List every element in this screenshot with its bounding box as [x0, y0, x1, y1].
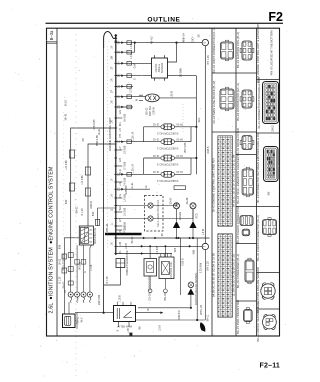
- ECU pin 2Q row: [116, 106, 133, 108]
- distributor box: [79, 226, 93, 245]
- main relay box: [114, 306, 136, 322]
- table row divider col1-2 y73: [212, 72, 257, 74]
- svg-text:2N: 2N: [111, 100, 114, 103]
- connector B6-11 round icon: [261, 284, 275, 298]
- svg-text:30–01 CONNECTOR BTWN ENG & ECU: 30–01 CONNECTOR BTWN ENG & ECU: [257, 77, 261, 129]
- svg-text:INJECTOR NO.3: INJECTOR NO.3: [157, 163, 179, 167]
- wire checker to lamp A: [153, 203, 176, 206]
- coil feed connector b: [62, 268, 67, 273]
- svg-text:L/W: L/W: [119, 241, 122, 246]
- svg-text:RED: RED: [196, 213, 199, 218]
- svg-text:0.85 B/R: 0.85 B/R: [178, 310, 181, 320]
- svg-text:1.0 G: 1.0 G: [130, 43, 133, 49]
- svg-text:B–3a: B–3a: [49, 30, 54, 40]
- checker lamp 1: [148, 203, 153, 208]
- connector B6-04 icon: [242, 169, 254, 195]
- injector left rail b: [143, 158, 145, 174]
- svg-text:1P 0.85: 1P 0.85: [123, 225, 126, 234]
- connector B6-05 icon bottom: [242, 229, 250, 236]
- sidebar divider line: [56, 28, 58, 336]
- connector B6-12 round icon: [263, 315, 277, 329]
- wire pin link vertical: [134, 43, 136, 53]
- svg-text:2Y: 2Y: [111, 45, 114, 48]
- wire oval stubs: [139, 95, 143, 100]
- wire main feed hook: [104, 32, 118, 48]
- pickup coil oval: [145, 94, 159, 102]
- spark plug 2: [75, 292, 80, 297]
- svg-text:2.0 B: 2.0 B: [130, 87, 133, 93]
- svg-text:2.6L ●IGNITION SYSTEM ●ENGIN: 2.6L ●IGNITION SYSTEM ●ENGINE CONTROL SY…: [49, 166, 55, 313]
- svg-text:OUTLINE: OUTLINE: [147, 17, 180, 24]
- crank angle sensor top pins: [155, 55, 165, 80]
- ECU pin 1H wire: [116, 205, 148, 207]
- lead inline connectors: [68, 253, 73, 258]
- svg-text:B/R: B/R: [119, 230, 122, 234]
- svg-text:W/G: W/G: [119, 205, 122, 210]
- svg-text:02–02 MAIN FUSE BLOCK (B–W): 02–02 MAIN FUSE BLOCK (B–W): [212, 81, 216, 124]
- svg-text:2P: 2P: [111, 90, 114, 93]
- connector table column line 1: [211, 28, 213, 336]
- coil feed wire: [64, 238, 79, 314]
- svg-text:L/R 0.85: L/R 0.85: [92, 119, 96, 129]
- power transistor box: [116, 259, 125, 268]
- svg-text:2.0 B/W: 2.0 B/W: [156, 245, 159, 254]
- ECU bus pin ticks: [114, 42, 117, 44]
- svg-text:L/R 0.85: L/R 0.85: [81, 175, 84, 185]
- svg-text:B/Y 0.85: B/Y 0.85: [183, 142, 187, 152]
- table row divider col2 y301: [236, 300, 257, 302]
- svg-text:f: f: [203, 246, 207, 247]
- svg-text:B6–02 DISTRIBUTOR (GY–4): B6–02 DISTRIBUTOR (GY–4): [236, 83, 240, 121]
- svg-text:1.0 W: 1.0 W: [202, 228, 205, 235]
- svg-text:SELF–DIAG CHECKER: SELF–DIAG CHECKER: [157, 200, 160, 227]
- ECU pin 3K row: [116, 75, 152, 77]
- monitor lamp A: [174, 203, 180, 209]
- svg-text:1.25 L/B: 1.25 L/B: [131, 164, 134, 173]
- svg-text:B6–02: B6–02: [76, 206, 79, 214]
- condenser terminal: [149, 276, 151, 289]
- svg-text:B6–01 IGNITION COIL (B–2): B6–01 IGNITION COIL (B–2): [236, 32, 240, 68]
- svg-text:4B–02: 4B–02: [150, 36, 154, 44]
- injector no.2 rung: [144, 126, 161, 128]
- svg-text:B6–10 CHECK CONNECTOR (W–6): B6–10 CHECK CONNECTOR (W–6): [256, 215, 260, 261]
- ECU pin 2U row: [116, 85, 133, 87]
- svg-text:SENSOR: SENSOR: [161, 63, 164, 74]
- svg-text:L 1.25: L 1.25: [90, 264, 93, 271]
- lower rail 180: [180, 238, 182, 295]
- connector B6-02 icon: [242, 90, 252, 108]
- condenser feed: [149, 246, 151, 258]
- svg-text:L/R 0.85: L/R 0.85: [65, 160, 68, 170]
- svg-text:INJECTOR NO.1: INJECTOR NO.1: [157, 146, 179, 150]
- svg-text:2R: 2R: [111, 78, 114, 81]
- svg-text:PIN IS LOCATED AT THE BOTTOM: PIN IS LOCATED AT THE BOTTOM: [270, 30, 274, 75]
- svg-text:B/Y 1.25: B/Y 1.25: [207, 55, 210, 65]
- svg-text:4BB–03: 4BB–03: [106, 223, 109, 232]
- svg-text:F2: F2: [268, 10, 283, 24]
- noise filter box: [159, 257, 174, 279]
- ECU connector drawing 1: [263, 82, 279, 124]
- svg-text:2L 2M 2N 2O 2P 2Q 2R 2S 2T 2U: 2L 2M 2N 2O 2P 2Q 2R 2S 2T 2U: [231, 254, 235, 296]
- svg-text:1H: 1H: [111, 194, 114, 197]
- wire relay left: [75, 312, 114, 314]
- bus 238 connector symbols: [143, 237, 146, 240]
- svg-text:16–01: 16–01: [64, 113, 68, 121]
- injector no.1 rung: [144, 141, 161, 143]
- connector X-01 icon: [221, 42, 234, 59]
- condenser box: [144, 259, 157, 277]
- inline connector on branch 2a: [85, 167, 90, 175]
- svg-text:1A: 1A: [111, 120, 114, 123]
- ECU pin 1C row: [116, 141, 144, 143]
- svg-text:B 1.25: B 1.25: [106, 276, 109, 284]
- sidebar top reference box B-3a: [47, 42, 58, 43]
- connector B6-10 icon: [263, 220, 277, 235]
- connector B6-01 icon: [242, 41, 252, 60]
- svg-text:Y/G: Y/G: [119, 194, 122, 198]
- svg-text:1A 1B 1C 1D 1E 1F 1G 1H 1I 1J: 1A 1B 1C 1D 1E 1F 1G 1H 1I 1J 1K 1L 1M: [231, 154, 235, 207]
- svg-text:4BB–14: 4BB–14: [182, 33, 186, 43]
- connector B6-05 icon top: [240, 216, 253, 226]
- table row divider col3 y133: [257, 132, 280, 134]
- svg-text:95–02: 95–02: [131, 236, 134, 243]
- svg-text:W–2: W–2: [82, 317, 84, 322]
- high tension lead: [105, 233, 142, 235]
- svg-text:G/Y: G/Y: [119, 218, 122, 223]
- svg-text:02–01 JOINT CONNECTOR (GY–L): 02–01 JOINT CONNECTOR (GY–L): [212, 27, 216, 72]
- ECU pin 1O bus: [116, 245, 202, 247]
- svg-text:W/B: W/B: [174, 247, 177, 252]
- ECU box dotted edge: [107, 46, 109, 250]
- svg-text:L/Y: L/Y: [119, 146, 122, 150]
- ECU pin 1Q stub: [116, 253, 172, 255]
- ECU pin 1J wire: [116, 218, 148, 220]
- svg-text:0.85 W: 0.85 W: [153, 107, 155, 115]
- inline connector on branch 2b: [85, 188, 90, 196]
- main relay pins: [118, 322, 129, 328]
- svg-text:1H 0.85: 1H 0.85: [123, 177, 126, 186]
- svg-text:B6–02: B6–02: [63, 281, 66, 289]
- svg-text:HIGH TENSION: HIGH TENSION: [63, 253, 66, 270]
- svg-text:2W2: 2W2: [271, 125, 275, 132]
- svg-text:G/B: G/B: [119, 158, 122, 163]
- wire to off-page circle: [135, 42, 202, 44]
- svg-text:3B: 3B: [198, 34, 201, 37]
- ECU pin 2S row: [116, 96, 146, 98]
- diode B: [192, 209, 194, 221]
- off-page connector circle A: [202, 39, 208, 45]
- svg-text:04–03: 04–03: [176, 123, 183, 125]
- svg-text:30–01 ENGINE CONTROL UNIT & EX: 30–01 ENGINE CONTROL UNIT & EXTENSION: [256, 23, 260, 83]
- svg-text:W/B: W/B: [192, 249, 195, 254]
- header rule: [46, 22, 284, 24]
- svg-text:30–14 CONNECTOR BETWEEN EMISSI: 30–14 CONNECTOR BETWEEN EMISSION ENG & I…: [256, 132, 260, 203]
- off-page connector circle B: [202, 243, 208, 249]
- noise filter top pins: [161, 254, 171, 257]
- injector collector link a: [191, 126, 196, 128]
- svg-text:1.25 B: 1.25 B: [170, 91, 174, 99]
- svg-text:1A 0.85: 1A 0.85: [123, 113, 126, 122]
- svg-text:B6–04 SELF–DIAGNOSIS CHECKER: B6–04 SELF–DIAGNOSIS CHECKER: [236, 156, 240, 203]
- svg-text:1.25 L/B: 1.25 L/B: [131, 131, 134, 140]
- svg-text:1N: 1N: [111, 242, 114, 245]
- idle switch box: [174, 186, 186, 190]
- svg-text:0.85 B: 0.85 B: [181, 258, 184, 266]
- wire relay right: [136, 312, 164, 314]
- svg-text:G: G: [134, 78, 137, 80]
- svg-text:16–03: 16–03: [59, 258, 61, 265]
- ECU stub pins: [116, 117, 123, 119]
- svg-text:0.85 W: 0.85 W: [90, 200, 93, 208]
- faint crease 2: [63, 112, 65, 240]
- ignition failure diode: [188, 288, 195, 294]
- table row divider col3 y272: [257, 272, 280, 274]
- svg-text:30–07: 30–07: [169, 197, 172, 204]
- terminal chart grid 2: [218, 234, 233, 317]
- svg-text:W/L: W/L: [119, 121, 122, 126]
- ECU pin 3E row: [116, 51, 135, 53]
- svg-text:G/W: G/W: [134, 63, 137, 69]
- inline connector on branch 1a: [69, 150, 74, 158]
- wire sensor output: [168, 75, 197, 77]
- crank angle sensor box: [152, 58, 168, 78]
- svg-text:16–01: 16–01: [98, 128, 101, 135]
- svg-text:B6: B6: [267, 191, 271, 195]
- svg-text:1.25 B/W: 1.25 B/W: [200, 262, 203, 273]
- svg-text:INJECTOR NO.2: INJECTOR NO.2: [157, 131, 179, 135]
- lower wire 320: [136, 319, 206, 321]
- svg-text:1G–01: 1G–01: [131, 182, 134, 190]
- spark plug 1: [68, 292, 73, 297]
- svg-text:DIST SIG: DIST SIG: [150, 106, 152, 116]
- svg-text:e: e: [203, 41, 207, 43]
- svg-text:ED–03: ED–03: [149, 293, 152, 301]
- svg-text:15–03: 15–03: [152, 138, 159, 140]
- ignition coil top stub: [68, 302, 70, 314]
- right rail 1: [195, 76, 197, 175]
- noise filter terminal: [164, 279, 166, 289]
- svg-text:G: G: [84, 271, 87, 273]
- distributor feed connector: [97, 208, 99, 226]
- svg-text:1.0 G: 1.0 G: [130, 53, 133, 59]
- inline connector on branch 1b: [69, 183, 74, 191]
- injector right rail a: [190, 127, 192, 142]
- wire main feed rail: [103, 48, 105, 313]
- injector no.3 rung: [144, 157, 161, 159]
- svg-text:2A 2B 2C 2D 2E 2F 2G 2H 2I 2J: 2A 2B 2C 2D 2E 2F 2G 2H 2I 2J 2K: [211, 253, 215, 297]
- ignition coil box: [63, 314, 76, 328]
- svg-text:30–01 ENGINE CONTROL UNIT, ENG: 30–01 ENGINE CONTROL UNIT, ENG RLY: [211, 158, 215, 212]
- scan speckles: [97, 58, 100, 61]
- lower rail 197: [196, 238, 198, 320]
- svg-text:2.0 B: 2.0 B: [159, 325, 162, 331]
- lower wire 307: [138, 307, 191, 309]
- svg-text:1/2 B/W: 1/2 B/W: [179, 67, 183, 77]
- connector table column line 2: [235, 28, 237, 336]
- dotted continuation: [182, 104, 184, 132]
- ECU pin 3H row: [116, 62, 152, 64]
- svg-text:1G: 1G: [145, 185, 148, 188]
- svg-text:W/B 1.25: W/B 1.25: [200, 304, 203, 315]
- ECU pin 1E row: [116, 173, 144, 175]
- svg-text:J/B: J/B: [82, 138, 85, 142]
- junction dots lower: [196, 319, 198, 321]
- svg-text:B/Y 1.25: B/Y 1.25: [206, 261, 209, 271]
- spark plug leads: [77, 245, 91, 286]
- svg-text:04–03: 04–03: [176, 138, 183, 140]
- svg-text:POWER TRANSISTOR: POWER TRANSISTOR: [126, 250, 129, 275]
- svg-text:15–03: 15–03: [152, 170, 159, 172]
- svg-text:B6–07 PWR TRANSISTOR: B6–07 PWR TRANSISTOR: [236, 300, 240, 334]
- svg-text:B 2.0: B 2.0: [64, 99, 68, 106]
- lower rail 205: [204, 250, 206, 320]
- table row divider col2-3 y206: [236, 206, 280, 208]
- svg-text:INJECTOR NO.4: INJECTOR NO.4: [157, 179, 179, 183]
- junction dot 2: [175, 42, 177, 44]
- connector B6-03 icon: [242, 136, 252, 150]
- connector B6-06 icon: [245, 260, 254, 282]
- spark plug 4: [87, 292, 92, 297]
- wire oval right: [159, 97, 196, 99]
- svg-text:W/R: W/R: [198, 117, 201, 122]
- svg-text:30–08: 30–08: [186, 197, 189, 204]
- junction dot: [134, 42, 136, 44]
- wire checker to lamp B: [153, 209, 193, 219]
- connector table column line 3: [256, 28, 258, 336]
- svg-text:L/R: L/R: [119, 182, 122, 186]
- wire diode A down: [176, 228, 178, 238]
- injector no.4 rung: [144, 173, 161, 175]
- table row divider col3 y309: [257, 308, 280, 310]
- diagram border frame: [47, 28, 280, 336]
- svg-text:IGNITION COIL: IGNITION COIL: [170, 261, 173, 279]
- svg-text:G/R: G/R: [119, 110, 122, 115]
- svg-text:04–03: 04–03: [176, 154, 183, 156]
- wire left branch 1: [71, 128, 116, 286]
- terminal chart grid 1: [218, 136, 233, 226]
- svg-text:1K 0.85: 1K 0.85: [123, 207, 126, 216]
- wire transistor down: [104, 268, 121, 286]
- bottom frame tick: [129, 333, 132, 336]
- svg-text:B6–11: B6–11: [207, 314, 210, 321]
- table row divider col1-2 y132: [212, 131, 257, 133]
- wire relay to rail: [103, 312, 105, 314]
- svg-text:15–03: 15–03: [152, 154, 159, 156]
- svg-text:GREEN: GREEN: [179, 211, 182, 220]
- svg-text:B/W: B/W: [92, 211, 95, 216]
- monitor lamp B: [190, 203, 196, 209]
- svg-text:B6–12 KNOCK SENSOR (B–1): B6–12 KNOCK SENSOR (B–1): [256, 302, 260, 341]
- svg-text:B/LG: B/LG: [119, 169, 122, 175]
- ECU connector drawing 2: [264, 147, 279, 182]
- junction dots on bus 238: [175, 237, 177, 239]
- svg-text:F2–11: F2–11: [260, 363, 280, 370]
- svg-text:W 0.85: W 0.85: [79, 262, 82, 270]
- ECU pin 3B row: [116, 42, 135, 44]
- svg-text:DISTRIBUTOR: DISTRIBUTOR: [94, 228, 97, 244]
- svg-text:B6–05 CHECK CONNECTOR: B6–05 CHECK CONNECTOR: [236, 206, 240, 243]
- svg-text:B6–02: B6–02: [147, 107, 149, 114]
- svg-text:Y/B: Y/B: [119, 134, 122, 138]
- checker lamp 2: [148, 216, 153, 221]
- svg-text:B 1.25: B 1.25: [81, 208, 84, 216]
- injector collector link b: [191, 157, 196, 159]
- svg-text:B 1.25: B 1.25: [59, 276, 61, 283]
- svg-text:2.0 B: 2.0 B: [125, 243, 128, 249]
- fold crease dotted line: [75, 29, 77, 379]
- svg-text:1D 0.85: 1D 0.85: [123, 145, 126, 154]
- right rail 2: [204, 46, 206, 244]
- table row divider col3 y79: [257, 79, 280, 81]
- injector left rail a: [143, 127, 145, 142]
- wire left branch 2: [88, 144, 116, 226]
- svg-text:B/W: B/W: [65, 199, 68, 204]
- ignition failure lamp: [188, 282, 194, 288]
- svg-text:L/W 0.85: L/W 0.85: [97, 294, 101, 305]
- main relay top pins: [118, 302, 132, 306]
- svg-text:0.85 B: 0.85 B: [207, 146, 210, 153]
- svg-text:0.85 BR: 0.85 BR: [125, 185, 128, 194]
- spark plug 3: [81, 292, 86, 297]
- ECU pin 1G row: [116, 188, 150, 190]
- self-diagnosis checker box: [145, 196, 164, 232]
- ECU pin 1M bus: [116, 237, 210, 239]
- svg-text:15–03: 15–03: [152, 123, 159, 125]
- ECU bus line: [115, 34, 117, 255]
- table row divider col2 y154: [236, 154, 257, 156]
- svg-text:B6–06 CONDENSER (B–2): B6–06 CONDENSER (B–2): [236, 254, 240, 288]
- connector X-02 icon: [220, 89, 234, 109]
- svg-text:1.25 B: 1.25 B: [120, 295, 122, 302]
- noise filter feed: [164, 246, 166, 257]
- svg-text:MAIN RELAY: MAIN RELAY: [116, 325, 132, 329]
- svg-text:W3–03: W3–03: [164, 293, 167, 301]
- svg-text:G/O: G/O: [191, 37, 195, 42]
- svg-text:L/B: L/B: [119, 128, 122, 132]
- connector B6-07 icon: [244, 310, 253, 322]
- off-page arrow black: [200, 322, 205, 332]
- wire sensor to bus top: [168, 43, 177, 62]
- injector right rail b: [190, 158, 192, 174]
- coil feed connector a: [62, 254, 67, 259]
- svg-text:04–03: 04–03: [176, 170, 183, 172]
- svg-text:B6–03 NOISE FILTER: B6–03 NOISE FILTER: [236, 128, 240, 156]
- table row divider col2 y243: [236, 243, 257, 245]
- svg-text:1F 0.85: 1F 0.85: [123, 161, 126, 170]
- wire lamp down: [190, 295, 192, 308]
- bus 246 connector symbols: [141, 245, 144, 248]
- diode A: [176, 209, 178, 221]
- wire diode B down: [192, 228, 194, 238]
